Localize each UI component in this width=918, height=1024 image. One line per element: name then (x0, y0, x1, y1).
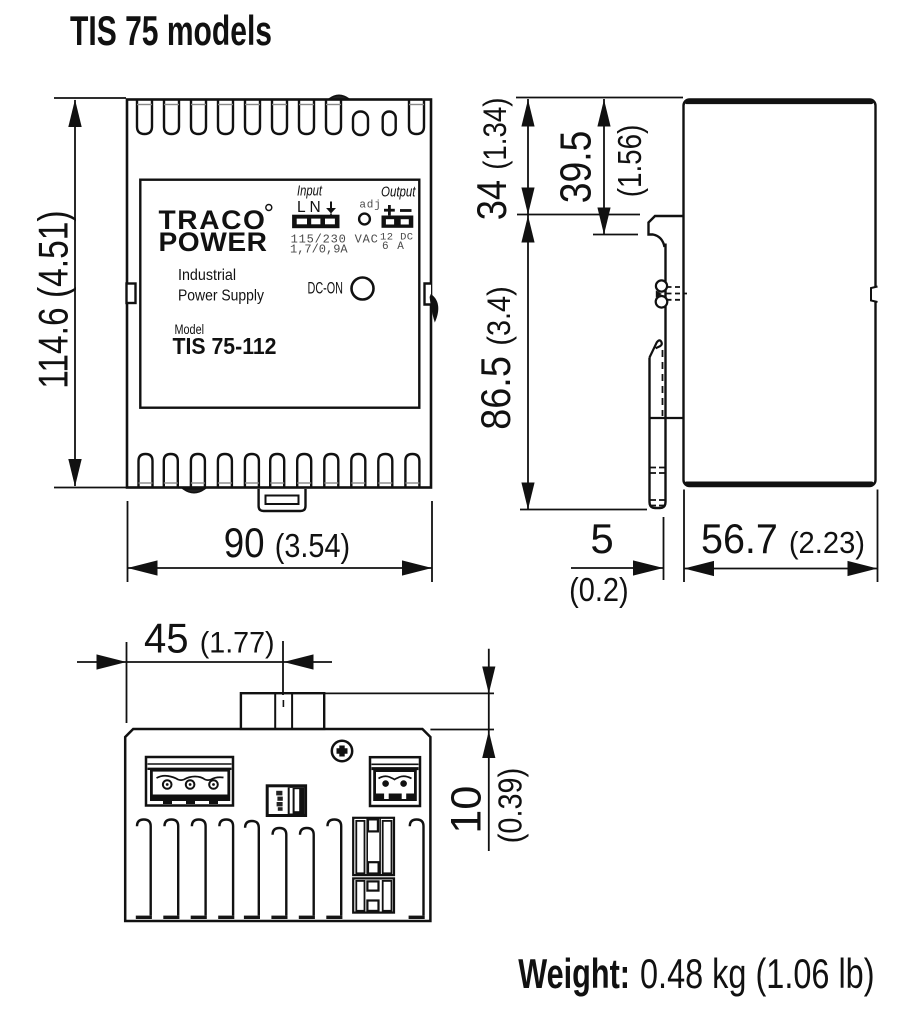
svg-text:Weight:: Weight: (518, 950, 630, 997)
svg-text:Output: Output (381, 184, 416, 201)
svg-text:(0.2): (0.2) (569, 571, 629, 608)
svg-text:0.48 kg (1.06 lb): 0.48 kg (1.06 lb) (640, 950, 875, 997)
svg-text:1,7/0,9A: 1,7/0,9A (290, 243, 348, 257)
svg-text:TIS 75-112: TIS 75-112 (173, 333, 277, 359)
svg-text:6 A: 6 A (382, 241, 405, 253)
svg-text:Input: Input (297, 183, 323, 200)
svg-text:114.6 (4.51): 114.6 (4.51) (29, 210, 76, 388)
svg-text:5: 5 (590, 515, 613, 562)
svg-text:90 (3.54): 90 (3.54) (224, 519, 350, 566)
svg-text:L: L (297, 199, 306, 216)
svg-text:10: 10 (443, 786, 491, 834)
svg-text:Power Supply: Power Supply (178, 288, 264, 305)
svg-text:TIS 75 models: TIS 75 models (70, 7, 272, 54)
svg-text:POWER: POWER (159, 227, 268, 257)
svg-text:(1.56): (1.56) (611, 125, 648, 198)
svg-text:(0.39): (0.39) (492, 768, 529, 843)
svg-text:adj: adj (359, 200, 381, 212)
svg-text:Industrial: Industrial (178, 267, 236, 284)
svg-text:N: N (310, 199, 321, 216)
svg-text:DC-ON: DC-ON (308, 280, 344, 298)
svg-text:39.5: 39.5 (552, 131, 601, 204)
